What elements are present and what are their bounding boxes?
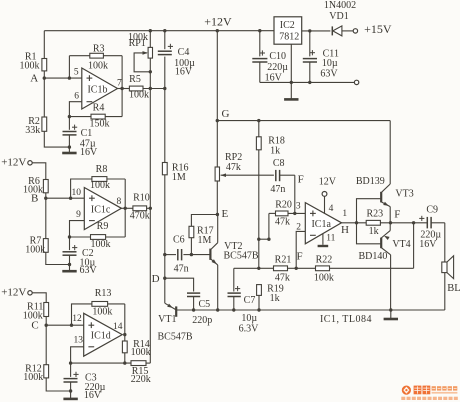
op-amp IC1a [296,203,341,244]
svg-text:16V: 16V [175,67,193,78]
resistor R14 [122,335,150,359]
node F (C8 side) [298,173,304,185]
transistor VT4 (BD140) [358,223,410,310]
svg-text:16V: 16V [80,147,98,158]
svg-text:5: 5 [74,68,79,78]
node F (output) [389,209,401,225]
wire pin13 to C3 node [71,347,84,363]
svg-text:220p: 220p [192,315,212,326]
svg-text:12V: 12V [319,177,337,188]
svg-text:14: 14 [113,322,123,332]
wire R8 to output riser [107,179,125,208]
svg-text:R20: R20 [275,199,292,210]
svg-text:100k: 100k [131,347,151,358]
svg-text:6.3V: 6.3V [239,323,260,334]
node C [31,320,48,332]
resistor R8 [90,164,110,191]
speaker BL [442,256,460,294]
ground under IC2 [284,82,298,99]
svg-text:F: F [296,250,302,262]
svg-text:R5: R5 [129,74,141,85]
svg-text:F: F [298,173,304,185]
svg-text:C6: C6 [173,235,185,246]
node H [341,221,358,236]
svg-text:47n: 47n [270,184,285,195]
wire IC1a output [342,222,367,224]
junction F2 [295,267,298,270]
wire R13 to output riser [108,304,125,335]
svg-text:C8: C8 [273,158,285,169]
svg-text:100k: 100k [314,273,334,284]
svg-text:R13: R13 [95,288,112,299]
capacitor C1 [63,117,98,159]
junction C2/R7 ground node [68,263,71,266]
svg-text:16V: 16V [84,390,102,401]
svg-text:VT4: VT4 [392,239,410,250]
junction R19/bus [257,308,260,311]
junction RP1 wiper [149,70,152,73]
resistor R9 [70,221,111,250]
junction at pin12 branch [70,324,73,327]
svg-text:R23: R23 [366,209,383,220]
wire node A to pin5 [44,77,82,79]
wire VT2 collector to E [217,215,219,243]
svg-text:4: 4 [329,204,334,214]
wire C to R12 [45,325,47,365]
wire R15 to column [146,362,150,364]
wire C4 bottom [164,57,166,89]
svg-text:100k: 100k [23,372,43,383]
svg-text:3: 3 [296,202,301,212]
wire R2 to C1 ground [44,131,69,147]
svg-text:470k: 470k [130,210,150,221]
wire R12 to C3 ground [46,378,70,391]
svg-text:G: G [222,108,230,120]
resistor R23 [366,209,383,237]
resistor R19 [257,284,284,304]
node E [216,208,229,220]
wire node D to C5 [165,278,194,291]
svg-text:1N4002: 1N4002 [324,0,356,11]
wire pin6 to R4 node [69,102,81,117]
node D [152,273,167,285]
svg-text:C7: C7 [244,295,256,306]
resistor R21 [259,254,292,283]
ground under C3 [63,391,77,399]
junction R21 left [257,267,260,270]
svg-text:8: 8 [117,197,122,207]
svg-text:63V: 63V [79,265,97,276]
junction G on rail [216,29,219,32]
junction RP1 top on rail [149,29,152,32]
wire R13 feedback left riser [72,304,92,325]
svg-text:47k: 47k [226,162,241,173]
wire VD1 to +15V terminal [342,30,353,32]
wire R22 to feedback tap [330,223,414,268]
wire rail to RP1 [149,31,151,48]
svg-text:100k: 100k [25,244,45,255]
svg-text:7812: 7812 [279,32,299,43]
capacitor C2 [63,237,98,276]
junction VT4 collector/bus [389,308,392,311]
wire R16 to C6 node [164,175,166,255]
regulator IC2 7812 [274,17,302,44]
svg-text:BD139: BD139 [356,176,385,187]
node F label (pin2 side) [296,250,302,262]
wire C9 to speaker [431,223,444,262]
svg-text:+12V: +12V [204,15,232,29]
wire pin4 supply [324,196,326,213]
svg-text:C10: C10 [269,51,286,62]
svg-text:1k: 1k [270,293,280,304]
svg-text:10: 10 [72,188,82,198]
junction C7/bus [232,308,235,311]
svg-text:47k: 47k [275,273,290,284]
capacitor C7 [228,268,260,334]
wire RP1 to R5 line [149,58,151,88]
wire R7 to C2 ground [46,252,70,264]
wire R1 top riser [43,31,45,59]
junction C11 top [308,29,311,32]
junction R5/C4/R16 [163,87,166,90]
resistor R13 [92,288,113,318]
svg-text:150k: 150k [90,119,110,130]
resistor R22 [296,254,334,283]
wire R20 connector [259,238,269,240]
svg-text:A: A [30,72,38,84]
node B [31,193,48,205]
junction pin3 [293,212,296,215]
terminal +12V (C row) [1,287,32,299]
junction R17/C6/VT2 base [190,253,193,256]
wire +12V to R6 [32,163,46,180]
svg-text:BC547B: BC547B [157,332,192,343]
junction C10 top [258,29,261,32]
junction R14/R15 [123,361,126,364]
svg-text:F: F [394,209,400,221]
junction R20 connector b [267,238,270,241]
svg-text:1: 1 [342,209,347,219]
terminal +15V [353,22,392,36]
capacitor C9 [419,204,441,250]
wire G line [217,120,390,122]
svg-text:R21: R21 [275,254,292,265]
junction VT2 emitter/bus [216,308,219,311]
resistor R17 [189,215,217,255]
svg-text:IC1, TL084: IC1, TL084 [320,314,372,325]
wire R23 to F [380,222,427,224]
svg-text:6: 6 [74,91,79,101]
svg-text:13: 13 [74,335,84,345]
svg-text:VT1: VT1 [158,314,176,325]
transistor VT3 (BD139) [356,176,414,223]
svg-text:47n: 47n [174,264,189,275]
op-amp IC1d [72,313,123,356]
svg-text:1M: 1M [198,235,212,246]
capacitor C11 [303,31,339,79]
ground under C1 [62,147,76,153]
svg-text:1k: 1k [270,146,280,157]
wire speaker to bus [444,273,446,310]
svg-text:R8: R8 [96,164,108,175]
terminal common (right) [354,80,358,84]
wire C2 bottom [69,255,71,264]
svg-text:7: 7 [117,78,122,88]
svg-text:63V: 63V [320,68,338,79]
svg-text:100k: 100k [88,60,108,71]
junction at pin5 branch [68,76,71,79]
resistor R18 [256,121,285,157]
svg-text:1k: 1k [369,226,379,237]
junction R16/C6 [163,253,166,256]
potentiometer RP1 [128,32,153,58]
ground at output bus [384,310,398,319]
wire C6 node to node D [164,255,166,279]
wire C5 bottom [193,297,195,311]
wire pin11 [322,234,324,245]
capacitor C6 [165,235,192,275]
resistor R10 [130,192,150,221]
svg-text:D: D [152,273,160,285]
junction C3/R12 ground node [69,389,72,392]
svg-text:100k: 100k [90,180,110,191]
junction IC1c output [124,207,127,210]
svg-text:16V: 16V [419,239,437,250]
terminal +12V (B row) [1,157,32,169]
svg-text:+12V: +12V [1,287,26,299]
wire +12V top rail [44,30,274,32]
svg-text:BL: BL [447,283,460,294]
svg-text:33k: 33k [25,125,40,136]
wire R6 to node B [45,193,47,198]
junction R10/column [149,207,152,210]
wire pin9 to R9 node [70,221,85,237]
svg-text:C1: C1 [81,128,93,139]
wire R3 feedback left riser [69,56,89,78]
wire pin2 [296,231,305,268]
pin 1 label [342,209,347,219]
wire G right riser [389,121,391,184]
svg-text:+12V: +12V [1,157,26,169]
diode VD1 (1N4002) [324,0,356,36]
wire A to R2 [43,78,45,117]
junction R18 top [257,119,260,122]
resistor R1 [20,52,47,72]
wire rail to G [216,31,218,121]
svg-text:C: C [31,320,38,332]
wire C10 bottom [259,62,261,82]
svg-text:IC1d: IC1d [91,331,111,342]
wire R18 to R21 node [258,150,260,268]
junction IC1d output [123,333,126,336]
wire R8 feedback left riser [71,179,92,198]
wire R21 to F2 [288,267,297,269]
wire R20 riser [268,213,270,239]
wire C7 tap [234,267,259,269]
svg-text:IC1b: IC1b [87,84,107,95]
junction pin6/R4/C1 [68,115,71,118]
svg-text:R3: R3 [93,43,105,54]
wire R10 to column [147,207,151,209]
pin 3 label [296,202,301,212]
svg-text:C5: C5 [198,299,210,310]
node G [216,108,230,122]
svg-text:+15V: +15V [364,22,392,36]
capacitor C4 [158,31,195,78]
junction IC2 ground pin [290,81,293,84]
wire bottom bus [176,309,445,311]
junction C5/bus [192,308,195,311]
junction C1/R2 ground node [68,145,71,148]
junction IC1b output [120,87,123,90]
junction pin9/R9/C2 [68,235,71,238]
wire R9 to output riser [106,208,126,237]
wire +12V to R11 [32,293,46,303]
wire H to VT4 base [357,223,381,244]
capacitor C3 [64,363,106,401]
resistor R15 [131,361,151,385]
wire C11 bottom [309,62,311,82]
op-amp IC1b [74,68,122,109]
op-amp IC1c [72,188,122,230]
junction C4 top on rail [163,29,166,32]
wire R19 to bus [258,295,260,310]
wire R11 to node C [45,317,47,326]
wiper of RP2 [221,173,274,177]
wire R1 to node A [43,71,45,78]
wiper of RP1 [134,51,150,72]
svg-text:C9: C9 [426,204,438,215]
svg-text:RP1: RP1 [129,38,146,49]
wire IC2 bottom line [260,81,355,83]
junction pin13/C3/R15 [69,361,72,364]
resistor R5 [129,74,149,101]
svg-text:9: 9 [76,210,81,220]
svg-text:47k: 47k [275,216,290,227]
junction R5/RP1 column [149,87,152,90]
junction feedback tap [412,221,415,224]
wire C8 to pin3 [294,175,296,213]
wire R5 to C4 column [143,88,165,90]
transistor VT1 (BC547B) [157,278,192,342]
svg-text:1M: 1M [172,172,186,183]
resistor R3 [88,43,108,71]
wire IC2 ground pin [290,44,292,82]
svg-text:100k: 100k [92,306,112,317]
resistor R11 [23,301,49,321]
junction C11 bottom [308,81,311,84]
wire IC1c output [121,207,132,209]
svg-text:E: E [222,208,229,220]
watermark logo [401,386,458,401]
wire node B to pin10 [46,197,85,199]
svg-text:IC1c: IC1c [91,204,111,215]
terminal 12V for IC1a [319,177,337,197]
svg-text:IC2: IC2 [280,20,295,31]
wire RP2 to E [216,181,218,215]
resistor R4 [69,103,109,130]
capacitor C8 [270,158,294,195]
wire R3 to output riser [103,56,122,89]
junction R18/R20 connector a [257,238,260,241]
svg-text:R4: R4 [93,103,105,114]
wire VT2 emitter to bus [217,265,219,310]
node A [30,72,46,84]
svg-text:R10: R10 [133,192,150,203]
wire R4 to output riser [105,89,122,117]
wire node C to pin12 [46,324,83,326]
resistor R12 [23,363,48,383]
wire R20 to pin3 [288,212,305,214]
svg-text:12: 12 [72,314,82,324]
wire B to R7 [45,198,47,238]
wire H to VT3 base [357,199,381,223]
wire mix bus column [149,89,151,364]
wire C3 bottom [70,382,72,391]
junction at pin10 branch [69,197,72,200]
svg-text:VT3: VT3 [395,188,413,199]
node +12V rail label [204,15,232,29]
svg-text:VD1: VD1 [329,11,348,22]
capacitor C5 [187,293,212,326]
svg-text:BC547B: BC547B [223,250,258,261]
wire R15 line left [71,362,131,364]
transistor VT2 (BC547B) [191,241,258,265]
resistor R16 [162,89,188,184]
potentiometer RP2 [215,152,242,181]
wire IC2 output side [302,30,331,32]
ground at pin11 [318,245,329,247]
capacitor C10 [252,31,288,84]
resistor R2 [25,116,47,136]
resistor R20 [269,199,292,227]
label IC1 TL084 [320,314,372,325]
wire IC1b output [118,88,130,90]
svg-text:100k: 100k [20,60,40,71]
ground under C2 [62,265,76,272]
svg-text:R22: R22 [316,254,333,265]
wire R14 bottom [124,353,126,363]
svg-text:220k: 220k [131,374,151,385]
svg-text:11: 11 [326,233,335,243]
resistor R6 [23,176,48,196]
svg-text:100k: 100k [129,90,149,101]
resistor R7 [25,236,48,256]
svg-text:C4: C4 [178,47,190,58]
svg-text:H: H [341,224,349,236]
wire G to RP2 [216,121,218,167]
svg-text:R9: R9 [97,221,109,232]
svg-text:IC1a: IC1a [311,219,331,230]
svg-text:B: B [31,193,38,205]
svg-text:BD140: BD140 [358,251,387,262]
wire C1 bottom [68,135,70,147]
